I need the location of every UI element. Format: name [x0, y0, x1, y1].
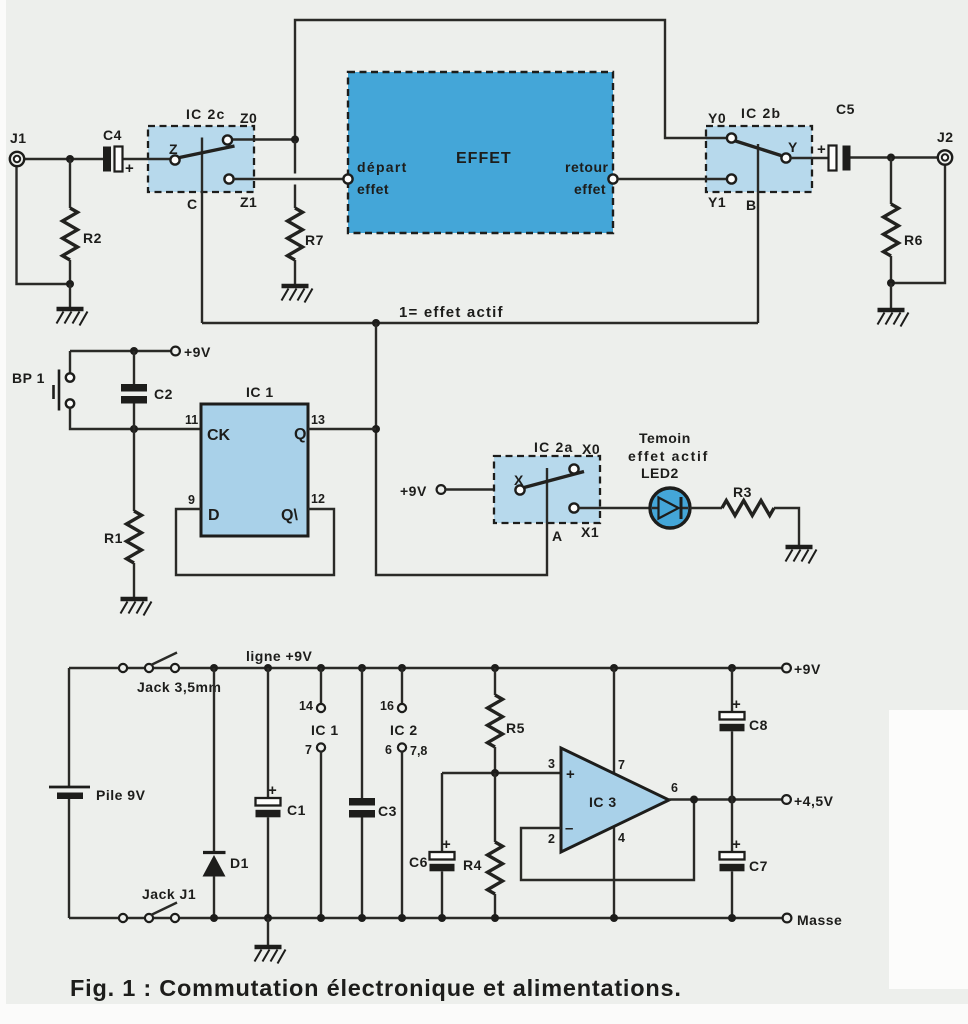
svg-text:C7: C7 [749, 858, 768, 874]
wire J1 sleeve to R2 bottom [17, 167, 71, 284]
svg-text:X0: X0 [582, 441, 600, 457]
node retour effet [608, 174, 617, 183]
node junction Q line [372, 425, 380, 433]
svg-text:Y: Y [788, 139, 798, 155]
svg-text:C2: C2 [154, 386, 173, 402]
wire R7 bottom [294, 260, 296, 285]
svg-text:D1: D1 [230, 855, 249, 871]
svg-text:IC 2c: IC 2c [186, 106, 225, 122]
svg-text:Masse: Masse [797, 912, 842, 928]
svg-text:+9V: +9V [400, 483, 427, 499]
wire op-amp pin 7 [610, 664, 618, 672]
capacitor C6 [441, 773, 443, 852]
wire control C of IC2c [201, 138, 203, 324]
flip-flop IC1 [201, 404, 308, 536]
svg-text:R6: R6 [904, 232, 923, 248]
battery Pile 9V [49, 786, 90, 789]
wire BP1 bottom to CK [70, 408, 201, 430]
wire Z0 to junction [231, 138, 295, 140]
svg-text:C8: C8 [749, 717, 768, 733]
svg-text:R7: R7 [305, 232, 324, 248]
wire D to Q\ feedback loop [176, 509, 334, 575]
svg-text:B: B [746, 197, 757, 213]
wire bypass top (Z0 to Y0) [295, 20, 729, 140]
wire ground stem [69, 284, 71, 307]
svg-text:4: 4 [618, 831, 625, 845]
resistor R5 [491, 664, 499, 672]
left page margin [0, 0, 6, 1024]
wire control B of IC2b [757, 144, 759, 323]
svg-text:retour: retour [565, 159, 609, 175]
svg-text:effet actif: effet actif [628, 448, 709, 464]
resistor R7 [288, 208, 303, 260]
svg-text:X: X [514, 472, 524, 488]
ground (R3) [786, 547, 817, 564]
wire C5 to J2 [851, 156, 939, 158]
svg-text:effet: effet [357, 181, 389, 197]
svg-text:ligne +9V: ligne +9V [246, 648, 313, 664]
svg-text:Z: Z [169, 141, 178, 157]
capacitor C3 [358, 664, 366, 672]
svg-text:LED2: LED2 [641, 465, 679, 481]
capacitor C4 [103, 147, 111, 172]
node Y1 [727, 174, 736, 183]
wire R1 top [133, 429, 135, 511]
switch Jack J1 [119, 914, 127, 922]
wire R1 bottom [133, 563, 135, 597]
svg-text:Z0: Z0 [240, 110, 257, 126]
ground (R7) [282, 286, 313, 303]
node junction C5/R6 [887, 154, 895, 162]
terminal +9V [782, 664, 791, 673]
node junction control/Q [372, 319, 380, 327]
wire R2 top [69, 159, 71, 208]
wire J1 to C4 [24, 158, 103, 160]
svg-text:Jack 3,5mm: Jack 3,5mm [137, 679, 221, 695]
svg-text:C4: C4 [103, 127, 122, 143]
node junction feedback/output [690, 796, 698, 804]
wire output to +4,5V [669, 798, 782, 800]
wire Y to C5 [791, 157, 829, 159]
wire battery left [68, 668, 70, 918]
svg-text:+: + [268, 782, 277, 799]
svg-text:+4,5V: +4,5V [794, 793, 834, 809]
wire R6 top [890, 158, 892, 205]
svg-text:+: + [817, 141, 826, 158]
svg-text:R2: R2 [83, 230, 102, 246]
svg-text:Fig. 1 : Commutation électroni: Fig. 1 : Commutation électronique et ali… [70, 975, 682, 1001]
node junction C2 top [130, 347, 138, 355]
ground (supply) [267, 918, 269, 945]
node junction J1/R2 [66, 155, 74, 163]
svg-text:6: 6 [671, 781, 678, 795]
svg-text:+: + [566, 766, 575, 783]
svg-text:IC 2a: IC 2a [534, 439, 573, 455]
svg-text:Y1: Y1 [708, 194, 726, 210]
wire retour effet to Y1 [618, 178, 728, 180]
svg-text:11: 11 [185, 413, 198, 427]
node X1 [569, 503, 578, 512]
terminal +9V (BP1) [171, 347, 180, 356]
capacitor C5 [829, 146, 837, 171]
ground (R1) [121, 599, 152, 616]
svg-text:D: D [208, 507, 220, 524]
IC2 supply pins [398, 664, 406, 672]
node Y0 [727, 133, 736, 142]
wire R6 bottom [890, 256, 892, 285]
svg-text:3: 3 [548, 757, 555, 771]
capacitor C7 [731, 800, 733, 853]
connector J2 [938, 150, 952, 164]
svg-text:+: + [125, 160, 134, 177]
svg-text:X1: X1 [581, 524, 599, 540]
resistor R3 [722, 501, 774, 516]
ground (R6/J2) [878, 310, 909, 327]
svg-text:+: + [732, 836, 741, 853]
svg-text:7: 7 [618, 758, 625, 772]
node junction R6/J2 sleeve [887, 279, 895, 287]
svg-text:14: 14 [299, 699, 313, 713]
wire divider node to op-amp + input [442, 772, 561, 774]
capacitor C8 [728, 664, 736, 672]
svg-text:1= effet actif: 1= effet actif [399, 304, 504, 321]
svg-text:Temoin: Temoin [639, 430, 691, 446]
svg-text:Q: Q [294, 426, 306, 443]
wire R3 to ground [774, 508, 799, 545]
svg-text:R4: R4 [463, 857, 482, 873]
svg-text:Jack J1: Jack J1 [142, 886, 196, 902]
svg-text:C5: C5 [836, 101, 855, 117]
node X0 [569, 464, 578, 473]
wire Z1 to effect input [234, 178, 345, 180]
capacitor C1 [264, 664, 272, 672]
svg-text:Q\: Q\ [281, 507, 298, 524]
svg-text:C1: C1 [287, 802, 306, 818]
wire R2 bottom [69, 260, 71, 284]
bottom page margin [0, 1004, 968, 1024]
svg-text:Y0: Y0 [708, 110, 726, 126]
wire control to A of IC2a [376, 323, 547, 575]
svg-text:BP 1: BP 1 [12, 370, 45, 386]
svg-text:16: 16 [380, 699, 394, 713]
svg-text:13: 13 [311, 413, 325, 427]
svg-text:J1: J1 [10, 130, 27, 146]
pushbutton BP1 [66, 373, 74, 381]
wire +9V to BP1/C2 [70, 350, 171, 352]
svg-text:R1: R1 [104, 530, 123, 546]
svg-text:IC 1: IC 1 [246, 384, 274, 400]
node Z1 [224, 174, 233, 183]
svg-text:7: 7 [305, 743, 312, 757]
switch Jack 3,5mm [119, 664, 127, 672]
svg-text:–: – [565, 820, 573, 837]
wire C4 to Z [123, 158, 173, 160]
ground (J1/R2) [57, 309, 88, 326]
resistor R1 [127, 511, 142, 563]
wire control stub A inside box [546, 468, 548, 523]
wire op-amp pin 4 [613, 824, 615, 918]
node Z [170, 155, 179, 164]
LED2 indicator [650, 488, 690, 528]
effect block EFFET [348, 72, 613, 233]
switch arm IC2c [180, 146, 235, 158]
switch box IC2a [494, 456, 600, 523]
resistor R4 [494, 773, 496, 842]
wire BP1 top stub [69, 351, 71, 373]
terminal +4,5V [782, 795, 791, 804]
svg-text:départ: départ [357, 159, 408, 175]
wire ground stem R6 [890, 283, 892, 308]
svg-text:Pile 9V: Pile 9V [96, 787, 146, 803]
capacitor C2 [133, 351, 135, 384]
svg-text:IC 2: IC 2 [390, 722, 418, 738]
resistor R2 [63, 208, 78, 260]
switch arm IC2b [736, 141, 782, 156]
svg-text:effet: effet [574, 181, 606, 197]
svg-text:A: A [552, 528, 563, 544]
svg-text:Z1: Z1 [240, 194, 257, 210]
svg-text:C3: C3 [378, 803, 397, 819]
switch box IC2c [148, 126, 254, 192]
svg-text:R5: R5 [506, 720, 525, 736]
wire Q output [308, 428, 376, 430]
node junction divider [491, 769, 499, 777]
svg-text:9: 9 [188, 493, 195, 507]
wire inverting input feedback [521, 800, 694, 881]
svg-text:R3: R3 [733, 484, 752, 500]
svg-text:+: + [732, 696, 741, 713]
svg-text:+9V: +9V [794, 661, 821, 677]
wire J2 sleeve [891, 165, 945, 283]
node Y [781, 153, 790, 162]
wire X1 to LED2 [579, 507, 652, 509]
svg-text:IC 1: IC 1 [311, 722, 339, 738]
terminal Masse [783, 914, 792, 923]
svg-text:2: 2 [548, 832, 555, 846]
node X [515, 485, 524, 494]
svg-text:IC 3: IC 3 [589, 794, 617, 810]
svg-text:CK: CK [207, 427, 231, 444]
terminal +9V (IC2a) [437, 485, 446, 494]
node junction C8/C7 [728, 796, 736, 804]
svg-text:7,8: 7,8 [410, 744, 427, 758]
node junction Z0/bypass/R7 [291, 136, 299, 144]
switch box IC2b [706, 126, 812, 192]
switch arm IC2a [524, 472, 584, 488]
svg-text:6: 6 [385, 743, 392, 757]
svg-text:12: 12 [311, 492, 325, 506]
svg-text:+: + [442, 836, 451, 853]
node Z0 [223, 135, 232, 144]
svg-text:C6: C6 [409, 854, 428, 870]
diode D1 [210, 664, 218, 672]
node junction R2/ground [66, 280, 74, 288]
svg-text:J2: J2 [937, 129, 954, 145]
wire R7 upper with hop over Z1 wire [294, 141, 296, 208]
wire ground rail [69, 917, 783, 919]
wire LED2 to R3 [690, 507, 722, 509]
right white cut-out [889, 710, 968, 989]
svg-text:IC 2b: IC 2b [741, 105, 781, 121]
svg-text:C: C [187, 196, 198, 212]
wire 1=effet actif control line (C to B) [202, 322, 758, 324]
op-amp IC3 [561, 748, 669, 852]
IC1 supply pins [317, 664, 325, 672]
connector J1 [10, 152, 24, 166]
svg-text:+9V: +9V [184, 344, 211, 360]
wire +9V rail [69, 667, 782, 669]
resistor R6 [884, 204, 899, 256]
wire +9V to X [446, 488, 517, 490]
svg-text:EFFET: EFFET [456, 150, 512, 167]
node junction C2 bottom [130, 425, 138, 433]
node depart effet [343, 174, 352, 183]
